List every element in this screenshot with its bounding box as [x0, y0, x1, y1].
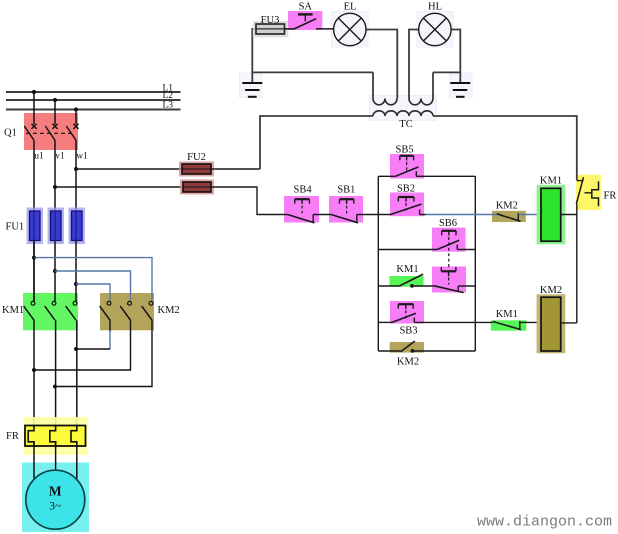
- button SB6 lower highlight: [432, 267, 466, 293]
- wire u below FU1: [33, 241, 35, 302]
- button SB3: [392, 304, 416, 322]
- wire FR down: [576, 204, 578, 323]
- fuse FU1 element 1: [30, 211, 41, 241]
- svg-text:HL: HL: [428, 2, 442, 13]
- fuse FU1 element 3: [72, 211, 83, 241]
- wire phase u drop: [33, 140, 35, 211]
- lamp EL: [334, 13, 366, 45]
- contact KM1 pole3: [66, 301, 77, 320]
- wire ground bus right: [433, 71, 460, 73]
- node L1 tap: [32, 90, 36, 94]
- breaker Q1 highlight: [24, 113, 78, 150]
- contact KM2 interlock highlight: [492, 211, 526, 222]
- transformer TC primary winding 1: [373, 99, 397, 105]
- svg-text:KM2: KM2: [397, 356, 419, 367]
- wire w to FR: [76, 320, 78, 431]
- wire FU3 left to ground: [252, 29, 256, 83]
- node L3 tap: [74, 107, 78, 111]
- transformer TC highlight: [370, 95, 437, 120]
- node v1 to FU2b: [53, 185, 57, 189]
- button SB2 highlight: [390, 193, 424, 217]
- phase line L2: [6, 99, 181, 101]
- wire FR to motor 3: [76, 442, 78, 479]
- wire SB2 out: [420, 214, 426, 216]
- breaker Q1 pole 3: [66, 124, 78, 141]
- wire KM1 aux to SB6 lower: [412, 285, 434, 287]
- svg-text:SA: SA: [299, 1, 313, 12]
- lamp HL highlight: [417, 12, 453, 48]
- switch SA highlight: [288, 11, 322, 30]
- button SB6 upper highlight: [432, 228, 466, 252]
- svg-text:FU2: FU2: [187, 152, 206, 163]
- svg-text:v1: v1: [55, 152, 65, 162]
- wire v to FR: [55, 320, 57, 431]
- wire SB6 row right: [457, 249, 475, 251]
- wire L2 drop to Q1: [54, 100, 56, 124]
- svg-text:KM2: KM2: [496, 200, 518, 211]
- wire SB1 to SB2: [357, 214, 391, 216]
- wire riser TC primary2 right: [432, 72, 434, 98]
- button SB4: [288, 199, 315, 223]
- phase line L1: [6, 91, 181, 93]
- button SB6 upper contact: [437, 231, 459, 267]
- fuse FU3 glow: [253, 21, 288, 38]
- button SB3 highlight: [390, 301, 424, 324]
- svg-text:SB1: SB1: [337, 185, 355, 196]
- fuse FU2b element wire: [183, 186, 211, 188]
- svg-text:Q1: Q1: [4, 128, 17, 139]
- wire left branch vertical: [377, 176, 379, 351]
- contact KM1 pole1: [24, 241, 35, 321]
- relay FR heater 3: [71, 425, 77, 447]
- node L2 tap: [53, 98, 57, 102]
- contact KM1 pole2: [45, 301, 56, 320]
- wire u to FR: [33, 320, 35, 431]
- node KM1 aux: [410, 284, 414, 288]
- switch SA: [294, 14, 334, 29]
- motor M highlight: [22, 463, 89, 533]
- wire FR to motor 2: [55, 442, 57, 471]
- contactor KM1 main highlight: [23, 293, 78, 330]
- wire riser TC primary1 left: [372, 72, 374, 98]
- coil KM1 body: [541, 188, 561, 241]
- relay FR contact: [576, 177, 598, 206]
- contact KM1 aux highlight: [390, 276, 424, 287]
- wire FR to motor 1: [33, 442, 35, 479]
- node KM2 aux: [411, 349, 415, 353]
- node out u: [32, 368, 36, 372]
- wire crossover v to KM2 pole2: [55, 271, 131, 301]
- svg-text:SB4: SB4: [294, 185, 313, 196]
- wire EL right to TC: [366, 30, 397, 99]
- svg-text:u1: u1: [34, 152, 44, 162]
- wire v1 to FU2b: [55, 186, 183, 188]
- contact KM1 interlock: [493, 321, 521, 330]
- wire KM2 interlock to KM1 coil: [518, 214, 541, 216]
- svg-text:SB6: SB6: [439, 218, 457, 229]
- wire TC secondary left feed: [260, 116, 373, 169]
- svg-text:w1: w1: [76, 152, 88, 162]
- svg-text:FU3: FU3: [261, 15, 280, 26]
- relay FR box: [25, 426, 86, 447]
- relay FR contact highlight: [576, 175, 601, 210]
- fuse FU3 element wire: [256, 28, 285, 30]
- svg-text:KM2: KM2: [540, 285, 562, 296]
- svg-text:SB2: SB2: [397, 183, 415, 194]
- svg-text:EL: EL: [344, 2, 357, 13]
- wire FU2a to TC: [211, 168, 260, 170]
- breaker Q1 pole 2: [45, 124, 57, 141]
- button SB5: [396, 156, 419, 177]
- wire KM1 interlock to KM2 coil: [520, 321, 541, 323]
- fuse FU2a element wire: [182, 168, 211, 170]
- wire SB4 to SB1: [313, 214, 331, 216]
- wire through FU1 fuse 3: [75, 211, 77, 241]
- breaker Q1 pole 1: [24, 124, 36, 141]
- contactor KM2 main highlight: [100, 293, 154, 330]
- button SB1: [331, 199, 358, 223]
- ground box right: [450, 73, 473, 98]
- wire SB3 row left: [378, 321, 392, 323]
- fuse FU1 glow: [27, 208, 86, 245]
- relay FR heater 1: [28, 425, 34, 447]
- wire SB5 row right: [416, 175, 475, 177]
- coil KM2 glow: [537, 294, 566, 353]
- contact KM1 aux: [399, 274, 423, 286]
- svg-text:KM1: KM1: [496, 309, 518, 320]
- wire v below FU1: [54, 241, 56, 302]
- coil KM1 glow: [537, 185, 566, 245]
- svg-text:KM1: KM1: [2, 305, 24, 316]
- breaker Q1 linkage dashed: [26, 132, 73, 134]
- fuse FU2b glow: [180, 180, 214, 195]
- node out w: [74, 347, 78, 351]
- svg-text:SB3: SB3: [399, 326, 417, 337]
- ground box left: [240, 73, 263, 98]
- motor M circle: [26, 470, 85, 529]
- wire KM2 aux to right vertical: [412, 350, 475, 352]
- fuse FU2a glow: [179, 162, 214, 177]
- svg-text:TC: TC: [399, 119, 412, 130]
- wire phase w drop: [75, 140, 77, 211]
- wire w1 to FU2a: [76, 168, 182, 170]
- wire KM2 pole3 out to v: [55, 320, 152, 386]
- svg-text:KM2: KM2: [158, 305, 180, 316]
- svg-text:3~: 3~: [49, 501, 61, 513]
- wire KM2 pole1 out to w: [109, 320, 111, 332]
- contact KM2 aux: [401, 341, 415, 352]
- wire w below FU1: [75, 241, 77, 302]
- node out v: [53, 385, 57, 389]
- transformer TC primary winding 2: [409, 99, 433, 105]
- contact KM2 aux highlight: [390, 342, 424, 353]
- svg-text:SB5: SB5: [396, 145, 414, 156]
- node crossover w: [74, 282, 78, 286]
- wire KM2 pole2 out to u: [34, 320, 131, 370]
- wire SB6 lower to right vertical: [458, 285, 475, 287]
- transformer TC secondary winding: [373, 111, 433, 116]
- svg-text:M: M: [49, 484, 62, 499]
- button SB5 highlight: [390, 154, 424, 179]
- fuse FU1 element 2: [51, 211, 62, 241]
- wire SB5 row left: [378, 175, 395, 177]
- fuse FU3 body: [256, 24, 285, 34]
- svg-text:FR: FR: [604, 190, 617, 201]
- wire rail blue to KM2 interlock: [426, 214, 497, 216]
- fuse FU2b body: [183, 182, 211, 192]
- wire HL right to ground: [451, 30, 460, 84]
- ground symbol left: [242, 83, 262, 97]
- wire phase v drop: [54, 140, 56, 211]
- wire KM1 aux row left: [378, 285, 399, 287]
- wire FU3 to SA: [285, 28, 295, 30]
- wire HL left to TC: [409, 30, 419, 99]
- wire right branch vertical: [474, 176, 476, 351]
- wire SB6 row left: [378, 249, 437, 251]
- svg-text:L2: L2: [162, 91, 173, 101]
- wire ground bus left: [252, 71, 373, 73]
- button SB4 highlight: [284, 196, 319, 223]
- svg-text:www.diangon.com: www.diangon.com: [477, 514, 612, 531]
- node w1 to FU2a: [74, 167, 78, 171]
- button SB2: [391, 197, 422, 215]
- contact KM2 pole2: [120, 301, 131, 320]
- node crossover v: [53, 269, 57, 273]
- coil KM2 body: [541, 297, 561, 351]
- svg-text:FR: FR: [6, 431, 19, 442]
- wire through FU1 fuse 1: [33, 211, 35, 241]
- relay FR heater 2: [50, 425, 56, 447]
- lamp EL highlight: [332, 12, 369, 48]
- svg-text:KM1: KM1: [396, 264, 418, 275]
- button SB1 highlight: [329, 196, 363, 223]
- contact KM2 interlock: [497, 213, 521, 221]
- phase line L3: [6, 109, 181, 111]
- wire L1 drop to Q1: [33, 92, 35, 124]
- relay FR glow: [24, 417, 88, 455]
- ground symbol right: [450, 83, 470, 97]
- node crossover u: [32, 256, 36, 260]
- wire KM2 coil to FR vertical: [561, 322, 577, 324]
- svg-text:KM1: KM1: [540, 176, 562, 187]
- fuse FU2a body: [182, 164, 211, 174]
- wire through FU1 fuse 2: [54, 211, 56, 241]
- wire KM2 aux row left: [378, 350, 400, 352]
- svg-text:FU1: FU1: [6, 222, 25, 233]
- wire crossover u to KM2 pole3: [34, 258, 152, 301]
- wire TC secondary right feed: [433, 116, 577, 180]
- contact KM1 interlock highlight: [491, 320, 527, 330]
- wire FU2b to rail: [211, 187, 288, 215]
- svg-text:L3: L3: [162, 101, 173, 111]
- contact KM2 pole1: [100, 301, 111, 320]
- wire SB3 row right: [414, 321, 493, 323]
- wire KM1 coil to FR: [561, 214, 577, 216]
- lamp HL: [419, 13, 451, 45]
- wire crossover w to KM2 pole1: [76, 284, 110, 301]
- wire L3 drop to Q1: [75, 110, 77, 125]
- contact KM2 pole3: [142, 301, 153, 320]
- button SB6 lower contact: [434, 267, 464, 293]
